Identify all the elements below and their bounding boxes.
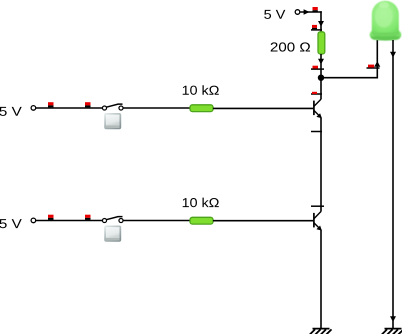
wire input B to switch S2 <box>36 220 102 222</box>
label 5 V (top source) <box>264 10 285 19</box>
wire LED cathode vertical <box>392 40 394 329</box>
current mark (red) R1 top <box>312 25 317 29</box>
wire LED anode vertical <box>376 40 378 79</box>
label 200 Ω <box>271 42 310 51</box>
wire input A to switch S1 <box>36 107 102 109</box>
current arrow down (above right ground) <box>390 316 396 322</box>
wire top horizontal <box>300 11 322 13</box>
wire switch S1 to R2 <box>123 107 191 109</box>
current mark (red) wire A1 <box>48 102 54 107</box>
current mark (red) wire B1 <box>48 215 54 220</box>
wire vertical from corner to resistor R1 <box>320 11 322 32</box>
current arrow down (above R1) <box>318 21 324 27</box>
current mark (red) top wire <box>313 7 318 12</box>
pin tick Q2 collector <box>311 205 324 207</box>
wire Q2 emitter to ground <box>320 230 322 329</box>
label 10 kΩ (R2) <box>183 85 219 95</box>
terminal 5V input A <box>31 106 36 111</box>
pin tick Q1 collector <box>311 93 322 95</box>
label 10 kΩ (R3) <box>183 198 219 208</box>
pin tick R1 top <box>311 29 322 31</box>
wire junction to LED anode <box>321 77 377 79</box>
current arrow up (LED anode) <box>374 61 380 67</box>
LED D1 body <box>370 1 402 41</box>
resistor R3 10kΩ body <box>190 217 213 224</box>
switch S1 (open) <box>102 104 123 110</box>
terminal 5V input B <box>31 218 36 223</box>
current arrow right <box>304 9 310 15</box>
current mark (red) R1 bottom <box>313 66 319 69</box>
wire switch S2 to R3 <box>123 220 191 222</box>
node junction dot <box>318 75 324 81</box>
resistor R2 10kΩ body <box>190 105 213 112</box>
terminal 5V top <box>295 10 300 15</box>
wire R2 to Q1 base <box>213 107 313 109</box>
pin tick LED anode <box>367 67 380 69</box>
current mark (red) LED anode <box>368 65 374 68</box>
wire R3 to Q2 base <box>213 220 313 222</box>
wire Q1 emitter to Q2 collector <box>320 118 322 212</box>
current arrow down (below R1) <box>318 59 324 65</box>
wire below R1 <box>320 54 322 78</box>
current mark (red) wire A2 <box>85 102 91 107</box>
current mark (red) wire B2 <box>85 215 91 220</box>
ground (left) <box>310 329 332 334</box>
switch S2 (open) <box>102 217 123 223</box>
label 5 V (input A) <box>0 107 22 116</box>
transistor Q1 <box>314 99 322 118</box>
current arrow down (LED cathode) <box>390 52 396 58</box>
label 5 V (input B) <box>0 219 22 228</box>
current mark (red) Q1 collector <box>312 92 317 94</box>
pin tick R1 bottom <box>311 68 324 70</box>
wire junction to Q1 collector <box>320 78 322 99</box>
ground (right) <box>382 329 402 334</box>
push button S1 <box>104 113 121 129</box>
resistor R1 200Ω body <box>318 32 325 54</box>
push button S2 <box>104 226 121 242</box>
pin tick Q1 emitter <box>311 131 322 133</box>
transistor Q2 <box>314 211 322 230</box>
